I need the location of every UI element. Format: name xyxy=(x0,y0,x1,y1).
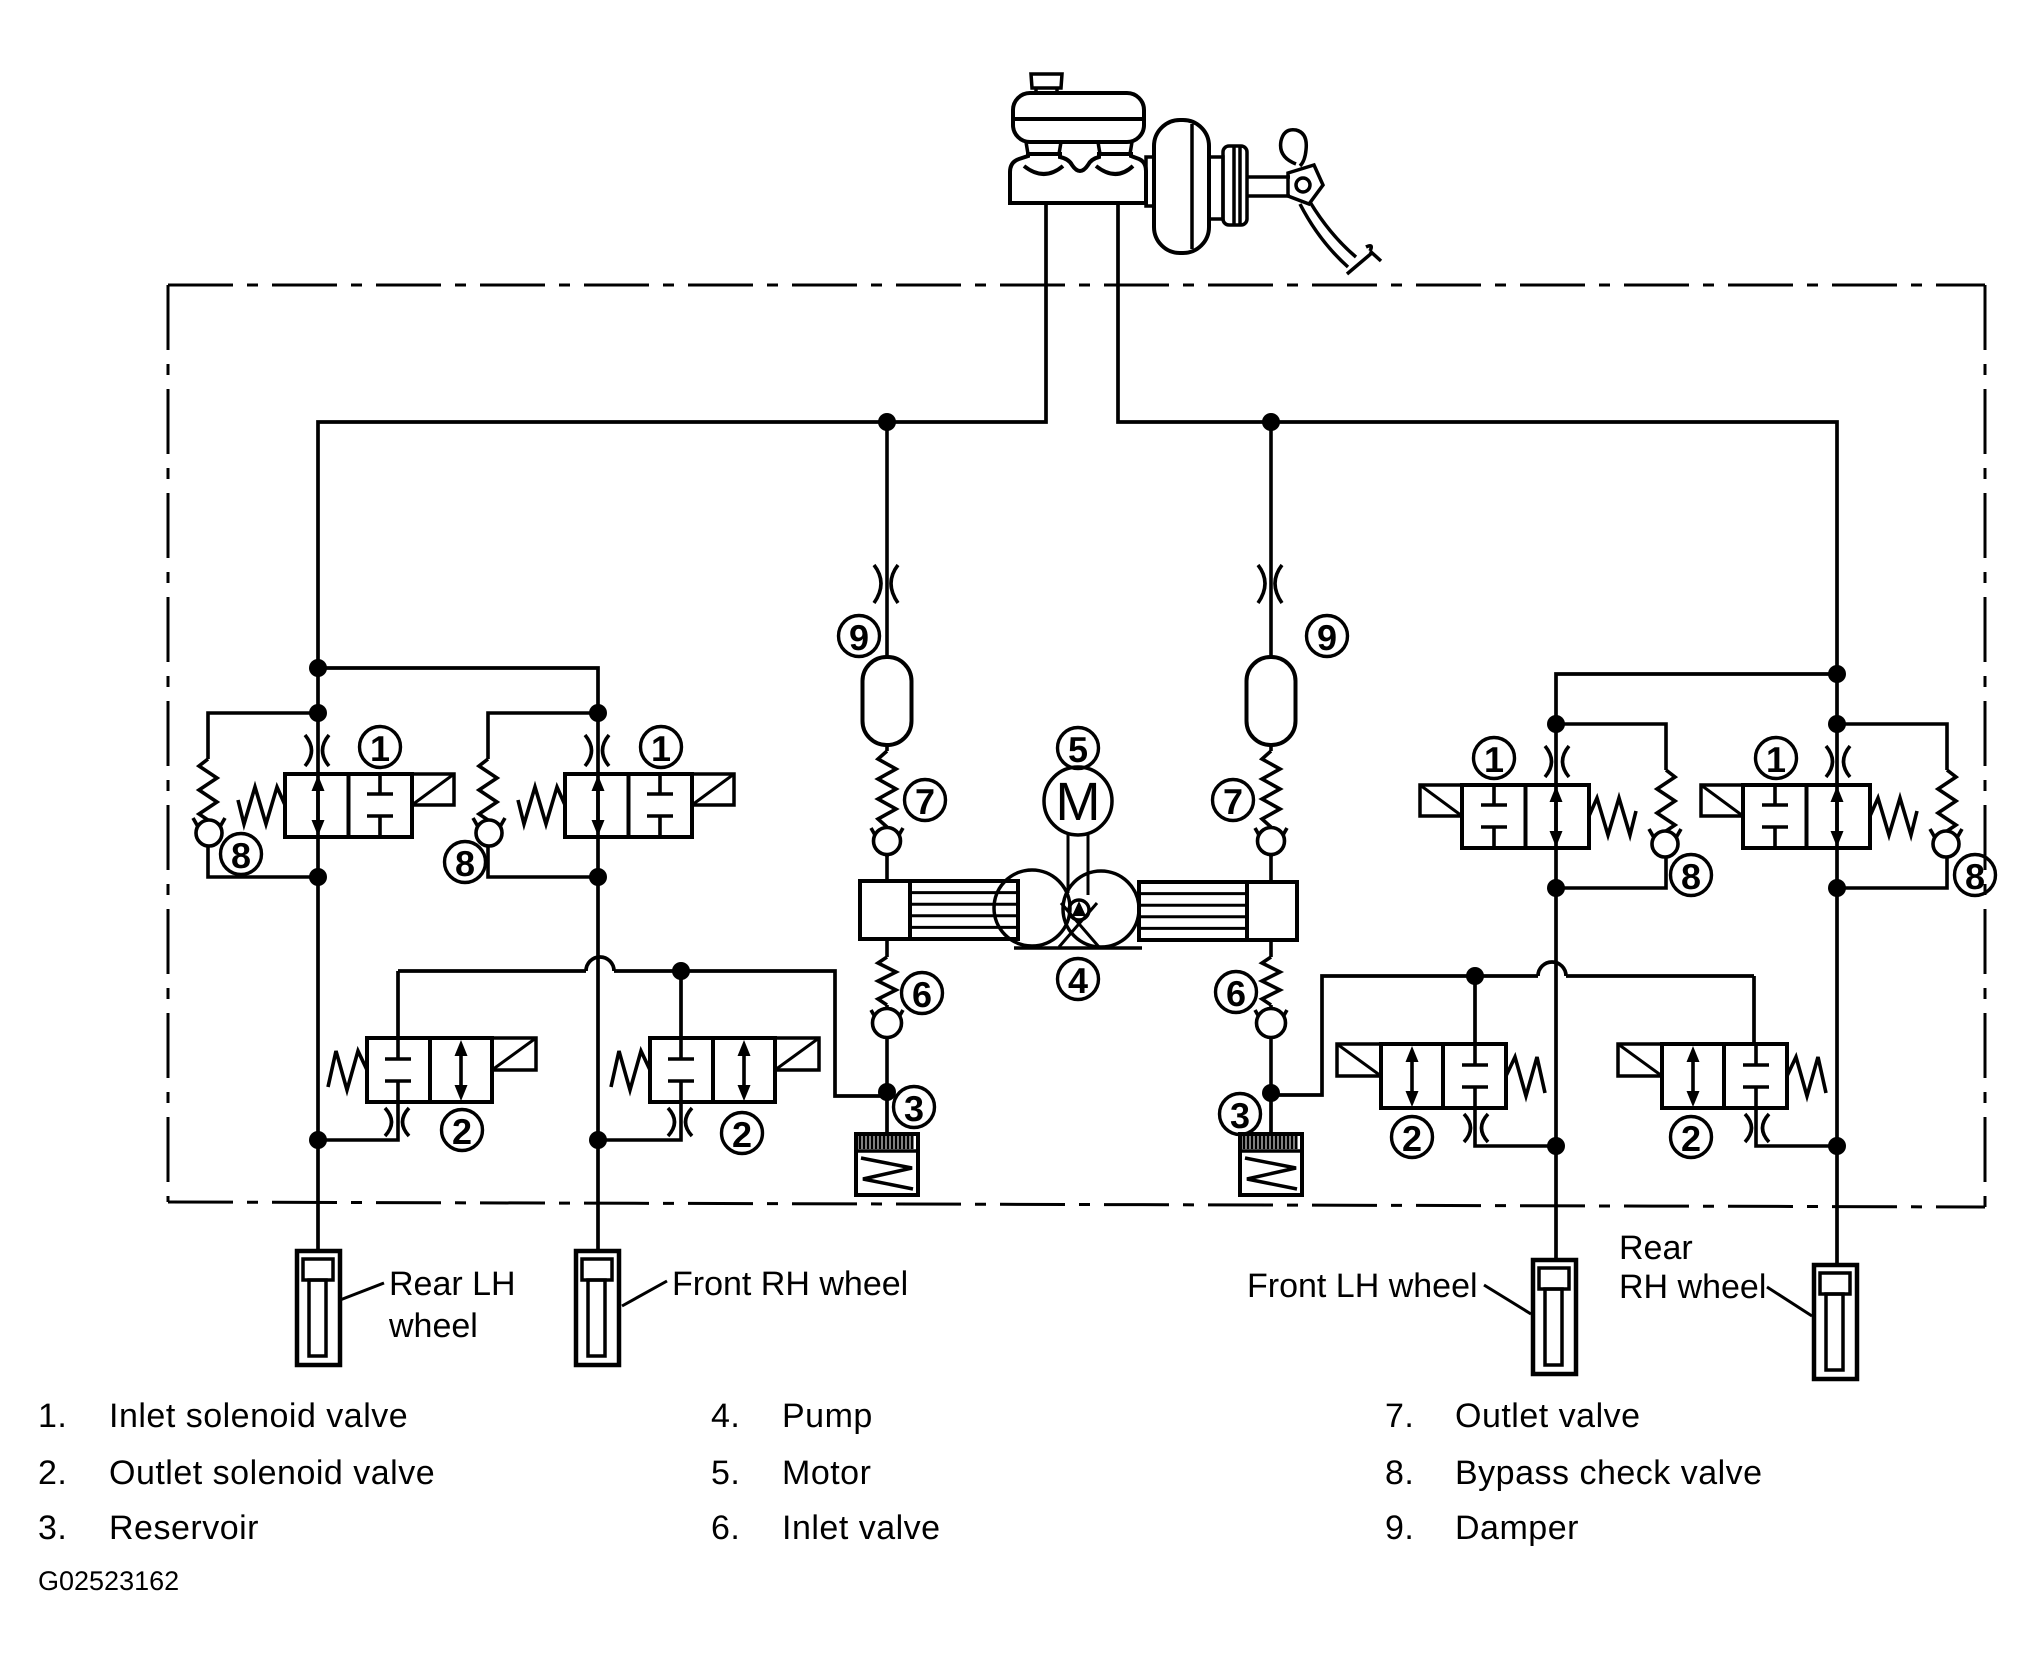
leader Front LH xyxy=(1484,1285,1531,1314)
svg-text:6: 6 xyxy=(912,974,932,1015)
label circle 1 (valve U2) xyxy=(641,727,682,768)
outlet solenoid valve U6 (Front RH) xyxy=(598,1038,819,1140)
motor M5 circle xyxy=(1044,767,1112,835)
inlet solenoid valve U4 (Rear RH) xyxy=(1701,715,1962,897)
label circle 4 pump xyxy=(1058,959,1099,1000)
pump right end cap xyxy=(1247,882,1297,940)
outlet solenoid valve U7 (Front LH) xyxy=(1337,1044,1558,1146)
hydraulic unit dash-dot border left xyxy=(167,285,170,1202)
svg-text:1.: 1. xyxy=(38,1397,67,1435)
motor shaft lines xyxy=(1068,833,1088,895)
brake booster shell xyxy=(1154,120,1209,253)
svg-text:Front LH wheel: Front LH wheel xyxy=(1247,1267,1478,1305)
svg-text:9.: 9. xyxy=(1385,1509,1414,1547)
booster hub xyxy=(1209,157,1223,219)
node: right reservoir junction xyxy=(1262,1084,1280,1102)
label circle 9 left xyxy=(839,616,880,657)
leader Rear RH xyxy=(1767,1287,1812,1316)
pump eccentric right circle xyxy=(1063,871,1139,947)
cylinder cup seal right xyxy=(1096,166,1133,174)
label circle 1 (valve U3) xyxy=(1474,738,1515,779)
node: valve 2c to bus xyxy=(1547,1137,1565,1155)
svg-text:3: 3 xyxy=(1230,1095,1250,1136)
svg-text:1: 1 xyxy=(1766,739,1786,780)
wheel cylinder Rear RH xyxy=(1814,1265,1857,1379)
pump crank cross legs xyxy=(1059,903,1099,947)
svg-text:8: 8 xyxy=(1965,856,1985,897)
label circle 8 (valve U2) xyxy=(445,842,486,883)
master cylinder body xyxy=(1010,154,1146,203)
wire: branch to Front RH bus xyxy=(318,668,598,1251)
hydraulic unit dash-dot border right xyxy=(1984,285,1987,1207)
label circle 7 right xyxy=(1213,780,1254,821)
reservoir left xyxy=(856,1134,918,1195)
node: outlet valve 2c tap xyxy=(1466,967,1484,985)
inlet solenoid valve U2 (Front RH) xyxy=(473,704,734,886)
label circle 8 (valve U1) xyxy=(221,834,262,875)
pump center check circle xyxy=(1069,900,1089,920)
wire: left return manifold to reservoir xyxy=(398,971,887,1096)
node: branch junction left xyxy=(309,659,327,677)
pushrod collar xyxy=(1223,146,1247,225)
svg-text:Damper: Damper xyxy=(1455,1509,1579,1547)
pump left end cap xyxy=(860,881,910,939)
svg-text:2: 2 xyxy=(1402,1118,1422,1159)
reservoir right xyxy=(1240,1134,1302,1195)
MAIN CONTENT xyxy=(168,202,1985,1265)
wire: right reservoir drop xyxy=(1269,1090,1273,1134)
wire: feed outlet valve 2b xyxy=(679,971,683,1038)
leader Rear LH xyxy=(340,1283,384,1300)
label circle 8 (valve U4) xyxy=(1955,855,1996,896)
svg-text:Outlet valve: Outlet valve xyxy=(1455,1397,1641,1435)
booster flange xyxy=(1146,157,1154,206)
svg-text:8: 8 xyxy=(455,843,475,884)
wire: right return manifold to reservoir xyxy=(1271,976,1754,1095)
tank right port xyxy=(1098,142,1132,154)
label circle 1 (valve U1) xyxy=(360,727,401,768)
inlet solenoid valve U3 (Front LH) xyxy=(1420,715,1681,897)
node: valve 2d to bus xyxy=(1828,1137,1846,1155)
wheel cylinder Rear LH xyxy=(297,1251,340,1365)
pedal pivot plate xyxy=(1288,165,1323,204)
wire: feed outlet valve 2c xyxy=(1473,976,1477,1044)
svg-text:Motor: Motor xyxy=(782,1454,871,1492)
label circle 8 (valve U3) xyxy=(1671,855,1712,896)
svg-text:2: 2 xyxy=(1681,1118,1701,1159)
svg-text:Outlet solenoid valve: Outlet solenoid valve xyxy=(109,1454,435,1492)
svg-text:1: 1 xyxy=(370,728,390,769)
outlet solenoid valve U5 (Rear LH) xyxy=(315,1038,536,1140)
svg-text:Rear LH: Rear LH xyxy=(389,1265,516,1303)
hydraulic unit dash-dot border bottom xyxy=(168,1202,1985,1207)
svg-text:7: 7 xyxy=(1223,781,1243,822)
fluid reservoir tank xyxy=(1013,93,1144,142)
label circle 2 (valve U8) xyxy=(1671,1117,1712,1158)
svg-text:7.: 7. xyxy=(1385,1397,1414,1435)
reservoir filler cap xyxy=(1031,74,1062,93)
pedal pad xyxy=(1347,246,1381,274)
node: valve 2b to bus xyxy=(589,1131,607,1149)
leader Front RH xyxy=(622,1281,667,1306)
label circle 6 right xyxy=(1216,972,1257,1013)
node: damper tap left xyxy=(878,413,896,431)
pedal arm xyxy=(1300,202,1356,267)
svg-text:6: 6 xyxy=(1226,973,1246,1014)
node: valve 2a to bus xyxy=(309,1131,327,1149)
svg-text:8.: 8. xyxy=(1385,1454,1414,1492)
pump left piston stack xyxy=(910,881,1018,939)
svg-text:8: 8 xyxy=(231,835,251,876)
svg-text:4: 4 xyxy=(1068,960,1088,1001)
wire: feed outlet valve 2a xyxy=(396,971,400,1038)
wire: branch to Front LH bus xyxy=(1556,674,1837,1260)
svg-text:2: 2 xyxy=(732,1114,752,1155)
svg-text:wheel: wheel xyxy=(388,1307,478,1345)
pump baseline xyxy=(1014,946,1142,950)
outlet solenoid valve U8 (Rear RH) xyxy=(1618,1044,1839,1146)
svg-text:Inlet valve: Inlet valve xyxy=(782,1509,941,1547)
node: left reservoir junction xyxy=(878,1083,896,1101)
label circle 5 motor xyxy=(1058,728,1099,769)
svg-text:9: 9 xyxy=(1317,617,1337,658)
pump eccentric left circle xyxy=(994,870,1070,946)
inlet solenoid valve U1 (Rear LH) xyxy=(193,704,454,886)
svg-text:Reservoir: Reservoir xyxy=(109,1509,259,1547)
damper and valve column left xyxy=(863,422,912,1090)
cylinder cup seal left xyxy=(1024,166,1063,174)
wire: left master cylinder port down and left bus to Rear LH wheel xyxy=(318,202,1046,1251)
pushrod xyxy=(1247,177,1290,196)
svg-text:8: 8 xyxy=(1681,856,1701,897)
svg-text:5: 5 xyxy=(1068,729,1088,770)
wire: hop over Front RH bus xyxy=(586,957,614,971)
label circle 1 (valve U4) xyxy=(1756,738,1797,779)
svg-text:G02523162: G02523162 xyxy=(38,1566,179,1596)
label circle 2 (valve U6) xyxy=(722,1113,763,1154)
tank left port xyxy=(1026,142,1061,154)
svg-text:3: 3 xyxy=(904,1088,924,1129)
label circle 3 right xyxy=(1220,1094,1261,1135)
pump center arrow xyxy=(1072,901,1086,916)
svg-text:7: 7 xyxy=(915,781,935,822)
label circle 6 left xyxy=(902,973,943,1014)
svg-text:6.: 6. xyxy=(711,1509,740,1547)
svg-text:RH wheel: RH wheel xyxy=(1619,1268,1766,1306)
node: damper tap right xyxy=(1262,413,1280,431)
damper and valve column right xyxy=(1247,422,1296,1090)
svg-text:Rear: Rear xyxy=(1619,1229,1693,1267)
wire: hop over Front LH bus xyxy=(1538,962,1566,976)
svg-text:Bypass check valve: Bypass check valve xyxy=(1455,1454,1763,1492)
svg-text:1: 1 xyxy=(651,728,671,769)
svg-text:M: M xyxy=(1056,772,1101,832)
svg-text:2: 2 xyxy=(452,1111,472,1152)
pump right piston stack xyxy=(1139,882,1247,940)
wheel cylinder Front RH xyxy=(576,1251,619,1365)
wire: feed outlet valve 2d xyxy=(1752,976,1756,1044)
svg-text:1: 1 xyxy=(1484,739,1504,780)
svg-text:2.: 2. xyxy=(38,1454,67,1492)
label circle 3 left xyxy=(894,1087,935,1128)
node: outlet valve 2b tap xyxy=(672,962,690,980)
label circle 2 (valve U7) xyxy=(1392,1117,1433,1158)
pedal lever knob xyxy=(1281,130,1307,166)
svg-text:Pump: Pump xyxy=(782,1397,873,1435)
svg-text:Inlet solenoid valve: Inlet solenoid valve xyxy=(109,1397,408,1435)
svg-text:4.: 4. xyxy=(711,1397,740,1435)
node: branch junction right xyxy=(1828,665,1846,683)
svg-text:Front RH wheel: Front RH wheel xyxy=(672,1265,908,1303)
wheel cylinder Front LH xyxy=(1533,1260,1576,1374)
wire: right master cylinder port down and right bus to Rear RH wheel xyxy=(1118,202,1837,1265)
svg-text:3.: 3. xyxy=(38,1509,67,1547)
label circle 7 left xyxy=(905,780,946,821)
label circle 9 right xyxy=(1307,616,1348,657)
svg-text:5.: 5. xyxy=(711,1454,740,1492)
label circle 2 (valve U5) xyxy=(442,1110,483,1151)
wire: left reservoir drop xyxy=(885,1090,889,1134)
hydraulic unit dash-dot border top xyxy=(168,284,1985,287)
svg-text:9: 9 xyxy=(849,617,869,658)
